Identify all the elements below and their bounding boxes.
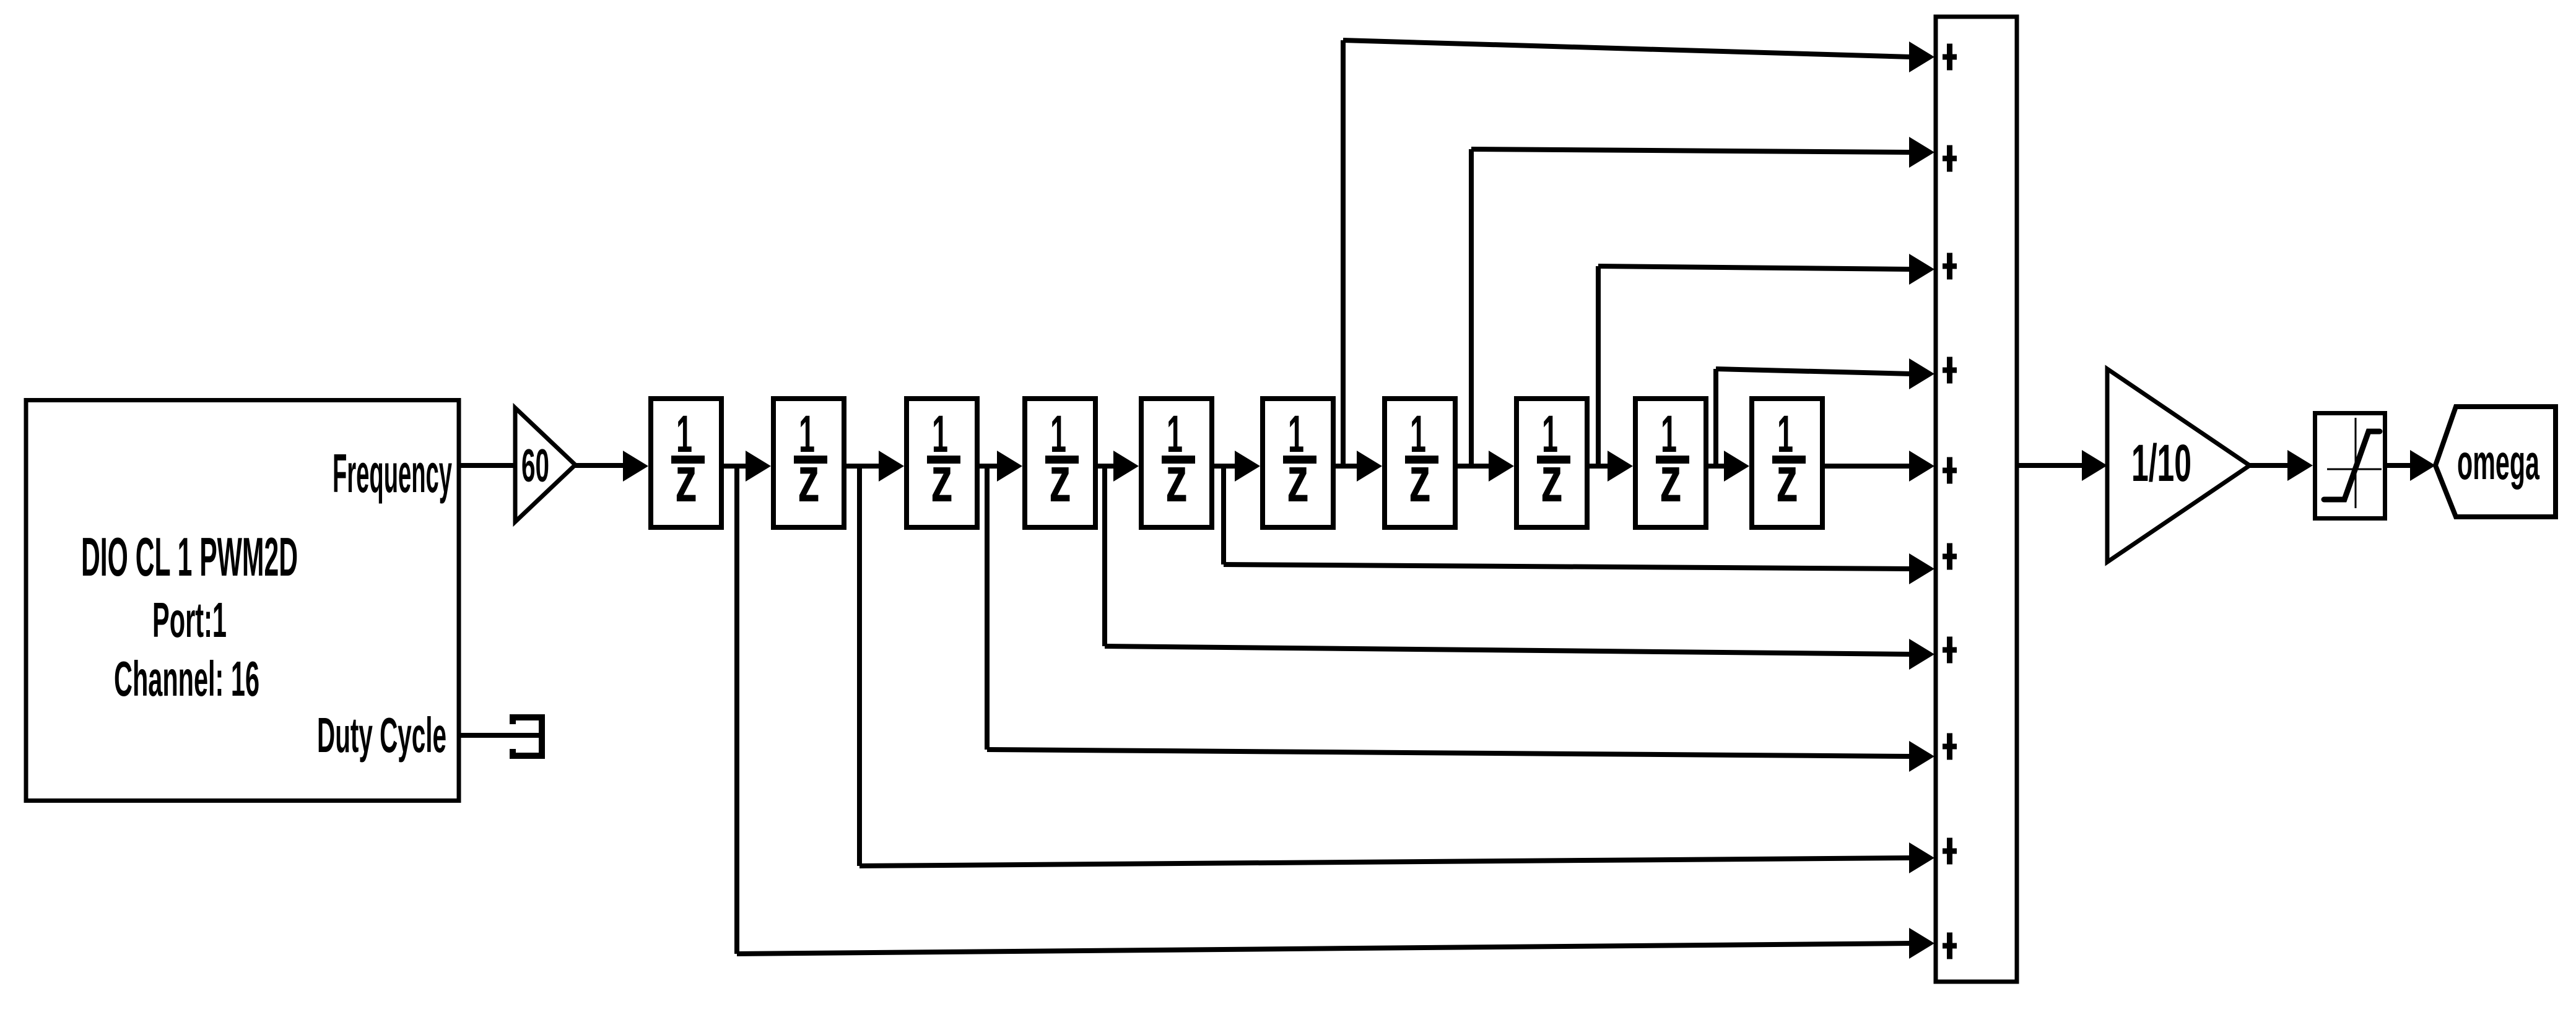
unit delay #4 denominator z [1049,444,1071,516]
svg-text:DIO CL 1 PWM2D: DIO CL 1 PWM2D [81,526,298,587]
unit delay block 1/z #5 [1141,399,1212,527]
unit delay #5 fraction bar [1162,456,1195,464]
unit delay #10 denominator z [1776,444,1798,516]
unit delay #7 denominator z [1409,444,1431,516]
svg-text:z: z [1776,444,1798,516]
block text line 3: Channel: 16 [114,651,259,706]
svg-text:z: z [1165,444,1188,516]
unit delay #9 numerator 1 [1661,405,1677,463]
svg-text:z: z [675,444,697,516]
gain value label 1/10 [2131,434,2191,492]
output port label Frequency [333,443,452,504]
saturation icon curve [2324,431,2380,500]
unit delay #8 denominator z [1541,444,1563,516]
wire saturation to output port omega [2387,450,2435,481]
sum input sign + #1 [1943,44,1957,71]
svg-text:Duty Cycle: Duty Cycle [317,707,446,763]
wire tap after unit delay 5 down to sum input 6 [1224,466,1934,584]
unit delay #10 numerator 1 [1777,405,1793,463]
sum input sign + #3 [1943,253,1957,280]
svg-text:z: z [798,444,820,516]
output port label omega [2457,435,2539,490]
svg-text:Port:1: Port:1 [152,592,227,647]
block text line 1: DIO CL 1 PWM2D [81,526,298,587]
sum input sign + #9 [1943,838,1957,865]
unit delay #9 fraction bar [1656,456,1689,464]
unit delay #10 fraction bar [1772,456,1806,464]
unit delay block 1/z #7 [1385,399,1455,527]
wire tap after unit delay 4 down to sum input 7 [1105,466,1934,670]
wire unit delay 10 to sum input 5 [1825,451,1934,482]
wire tap after unit delay 3 down to sum input 8 [987,466,1934,772]
unit delay #7 fraction bar [1405,456,1438,464]
wire unit delay 5 to unit delay 6 [1214,451,1260,482]
unit delay #3 numerator 1 [932,405,948,463]
wire tap after unit delay 7 up to sum input 2 [1471,137,1934,466]
subsystem block DIO CL 1 PWM2D (PWM input driver) [26,400,459,801]
unit delay #4 numerator 1 [1050,405,1066,463]
svg-text:z: z [1409,444,1431,516]
terminator block on Duty Cycle [513,717,542,756]
sum input sign + #7 [1943,637,1957,664]
sum input sign + #8 [1943,733,1957,760]
unit delay #6 denominator z [1287,444,1309,516]
block text line 2: Port:1 [152,592,227,647]
svg-text:Frequency: Frequency [333,443,452,504]
wire unit delay 2 to unit delay 3 [846,451,904,482]
wire unit delay 4 to unit delay 5 [1098,451,1139,482]
unit delay #2 numerator 1 [799,405,815,463]
saturation icon vertical axis [2355,418,2357,508]
saturation block [2315,413,2385,519]
unit delay #8 numerator 1 [1542,405,1558,463]
wire tap after unit delay 6 up to sum input 1 [1343,40,1934,466]
unit delay #6 fraction bar [1283,456,1316,464]
wire gain 1/10 to saturation block [2250,450,2313,481]
svg-text:z: z [1287,444,1309,516]
unit delay #3 denominator z [931,444,953,516]
svg-text:z: z [1541,444,1563,516]
wire unit delay 8 to unit delay 9 [1590,451,1633,482]
wire tap after unit delay 1 down to sum input 10 [737,466,1934,959]
sum block (tall rectangle) [1936,17,2017,982]
unit delay #5 denominator z [1165,444,1188,516]
unit delay #9 denominator z [1660,444,1682,516]
wire tap after unit delay 8 up to sum input 3 [1598,254,1934,466]
wire unit delay 1 to unit delay 2 [724,451,771,482]
gain value label 60 [521,439,549,491]
unit delay block 1/z #1 [651,399,721,527]
unit delay #8 fraction bar [1537,456,1570,464]
unit delay #1 fraction bar [671,456,705,464]
wire tap after unit delay 2 down to sum input 9 [859,466,1934,873]
unit delay block 1/z #6 [1263,399,1333,527]
unit delay #1 denominator z [675,444,697,516]
wire gain 60 to unit delay 1 [575,451,648,482]
output port label Duty Cycle [317,707,446,763]
wire unit delay 3 to unit delay 4 [980,451,1022,482]
unit delay #7 numerator 1 [1410,405,1426,463]
unit delay block 1/z #2 [773,399,844,527]
svg-text:1/10: 1/10 [2131,434,2191,492]
unit delay #4 fraction bar [1045,456,1079,464]
svg-text:z: z [931,444,953,516]
gain block 60 (triangle) [515,408,575,522]
sum input sign + #6 [1943,543,1957,570]
wire Frequency port to gain 60 [459,463,518,468]
wire unit delay 7 to unit delay 8 [1458,451,1514,482]
svg-text:Channel: 16: Channel: 16 [114,651,259,706]
svg-text:z: z [1049,444,1071,516]
wire unit delay 9 to unit delay 10 [1708,451,1749,482]
wire sum output to gain 1/10 [2017,450,2107,481]
sum input sign + #4 [1943,357,1957,384]
wire tap after unit delay 9 up to sum input 4 [1716,358,1934,466]
svg-text:z: z [1660,444,1682,516]
unit delay block 1/z #10 [1752,399,1822,527]
unit delay #6 numerator 1 [1288,405,1304,463]
sum input sign + #2 [1943,145,1957,172]
unit delay block 1/z #9 [1635,399,1706,527]
saturation icon horizontal axis [2327,469,2382,470]
unit delay #1 numerator 1 [676,405,692,463]
unit delay block 1/z #8 [1516,399,1587,527]
unit delay #5 numerator 1 [1167,405,1183,463]
svg-text:omega: omega [2457,435,2539,490]
gain block 1/10 (triangle) [2107,369,2250,562]
output port tag omega (pointed pentagon) [2435,407,2556,517]
wire unit delay 6 to unit delay 7 [1336,451,1382,482]
unit delay #2 denominator z [798,444,820,516]
svg-text:60: 60 [521,439,549,491]
unit delay #2 fraction bar [794,456,827,464]
unit delay #3 fraction bar [927,456,960,464]
sum input sign + #5 [1943,457,1957,484]
unit delay block 1/z #4 [1025,399,1095,527]
unit delay block 1/z #3 [907,399,977,527]
sum input sign + #10 [1943,933,1957,959]
wire Duty Cycle to terminator [459,733,540,738]
